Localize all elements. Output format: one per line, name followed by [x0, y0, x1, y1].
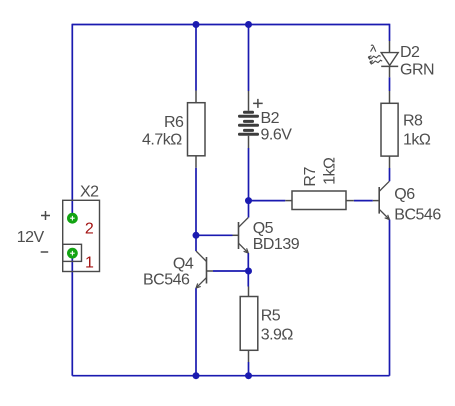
label X2 — [80, 183, 99, 200]
wire left rail upper — [71, 24, 73, 219]
svg-text:R7: R7 — [302, 167, 319, 187]
svg-text:BD139: BD139 — [253, 236, 300, 253]
wire right column segments — [389, 24, 391, 376]
svg-text:2: 2 — [85, 221, 94, 238]
svg-text:R6: R6 — [164, 114, 184, 131]
wire Q4 base — [213, 270, 249, 272]
connector X2 outline — [63, 200, 100, 271]
svg-text:Q6: Q6 — [394, 186, 415, 203]
value GRN — [400, 62, 434, 79]
svg-text:1kΩ: 1kΩ — [403, 131, 431, 148]
svg-text:BC546: BC546 — [394, 206, 441, 223]
junction node top B2 — [245, 21, 252, 28]
pin number 2 — [85, 221, 94, 238]
resistor R5 — [240, 287, 258, 363]
svg-text:1: 1 — [85, 254, 94, 271]
resistor R7 — [285, 191, 354, 210]
terminal pad pin 2 — [67, 213, 78, 224]
transistor Q6 — [373, 181, 390, 219]
resistor R6 — [188, 91, 206, 168]
svg-text:R8: R8 — [403, 113, 423, 130]
label R5 — [261, 308, 281, 325]
svg-text:BC546: BC546 — [143, 271, 190, 288]
transistor Q5 — [233, 218, 249, 254]
label R7 (rotated) — [302, 167, 319, 187]
value BD139 — [253, 236, 300, 253]
LED light arrows — [368, 45, 382, 64]
value 1kΩ — [403, 131, 431, 148]
value 4.7kΩ — [142, 131, 182, 148]
junction node bottom middle column — [245, 372, 252, 379]
resistor R8 — [381, 91, 398, 168]
value 9.6V — [261, 127, 293, 144]
label B2 — [261, 110, 280, 127]
label D2 — [400, 44, 420, 61]
label 12V — [17, 229, 45, 246]
battery B2 — [238, 91, 259, 148]
value BC546 (Q6) — [394, 206, 441, 223]
svg-text:12V: 12V — [17, 229, 45, 246]
junction node B2 / R7 / Q5 collector — [245, 197, 252, 204]
wire left rail lower — [71, 253, 73, 376]
label R8 — [403, 113, 423, 130]
svg-text:3.9Ω: 3.9Ω — [261, 326, 294, 343]
svg-text:D2: D2 — [400, 44, 420, 61]
wire base net R7 to Q6 — [249, 200, 373, 202]
svg-text:9.6V: 9.6V — [261, 127, 293, 144]
label R6 — [164, 114, 184, 131]
label Q4 — [173, 255, 194, 272]
junction node bottom left column — [193, 372, 200, 379]
junction node top R6 — [193, 21, 200, 28]
battery plus sign — [253, 99, 263, 108]
svg-text:R5: R5 — [261, 308, 281, 325]
wire left column segments — [195, 25, 197, 376]
polarity plus (X2) — [41, 211, 50, 220]
svg-text:B2: B2 — [261, 110, 280, 127]
svg-text:X2: X2 — [80, 183, 99, 200]
pin number 1 — [85, 254, 94, 271]
value 3.9Ω — [261, 326, 294, 343]
wire bottom rail — [72, 375, 389, 377]
wire middle column segments — [247, 25, 249, 376]
transistor Q4 (mirrored) — [196, 251, 213, 288]
svg-text:Q5: Q5 — [253, 220, 274, 237]
svg-text:GRN: GRN — [400, 62, 434, 79]
wire Q5 base — [196, 234, 233, 236]
value BC546 (Q4) — [143, 271, 190, 288]
value 1kΩ (rotated) — [322, 157, 339, 185]
junction node Q5 base / R6 / Q4 collector — [193, 232, 200, 239]
svg-text:4.7kΩ: 4.7kΩ — [142, 131, 182, 148]
svg-text:Q4: Q4 — [173, 255, 194, 272]
LED D2 — [381, 41, 398, 77]
polarity minus (X2) — [41, 251, 49, 253]
terminal pad pin 1 — [67, 248, 78, 259]
wire top rail — [72, 24, 389, 26]
junction node Q5 emitter / Q4 base / R5 — [245, 268, 252, 275]
svg-text:1kΩ: 1kΩ — [322, 157, 339, 185]
label Q6 — [394, 186, 415, 203]
label Q5 — [253, 220, 274, 237]
